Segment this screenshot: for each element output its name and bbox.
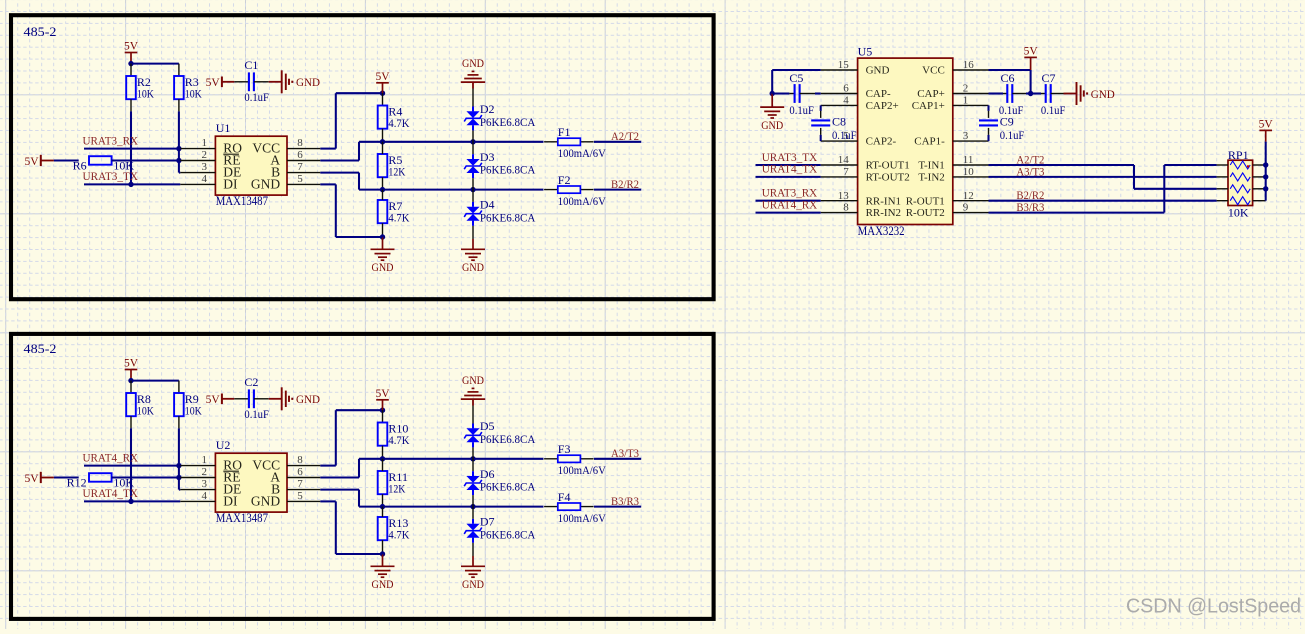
svg-text:7: 7: [297, 478, 303, 490]
svg-text:5V: 5V: [124, 357, 139, 369]
svg-text:P6KE6.8CA: P6KE6.8CA: [480, 480, 536, 494]
svg-text:A3/T3: A3/T3: [611, 446, 639, 460]
svg-text:12: 12: [963, 190, 974, 202]
svg-text:0.1uF: 0.1uF: [1041, 103, 1066, 117]
svg-text:P6KE6.8CA: P6KE6.8CA: [480, 115, 536, 129]
svg-text:6: 6: [843, 83, 849, 95]
svg-text:P6KE6.8CA: P6KE6.8CA: [480, 163, 536, 177]
svg-text:5V: 5V: [206, 394, 221, 406]
svg-text:T-IN2: T-IN2: [918, 172, 944, 184]
svg-text:URAT3_RX: URAT3_RX: [83, 133, 139, 147]
svg-text:CAP1+: CAP1+: [912, 100, 945, 112]
svg-text:URAT4_RX: URAT4_RX: [762, 197, 818, 211]
svg-text:4.7K: 4.7K: [388, 116, 409, 130]
svg-text:GND: GND: [296, 75, 320, 89]
svg-text:GND: GND: [296, 392, 320, 406]
svg-text:GND: GND: [251, 176, 280, 191]
svg-text:GND: GND: [462, 373, 484, 387]
svg-text:GND: GND: [372, 260, 394, 274]
svg-text:4.7K: 4.7K: [388, 527, 409, 541]
svg-text:A3/T3: A3/T3: [1016, 164, 1044, 178]
svg-text:C8: C8: [832, 114, 846, 128]
svg-text:DI: DI: [223, 176, 238, 191]
svg-text:0.1uF: 0.1uF: [789, 103, 814, 117]
svg-text:0.1uF: 0.1uF: [1000, 128, 1025, 142]
svg-text:10K: 10K: [137, 403, 154, 417]
svg-text:5: 5: [297, 490, 303, 502]
svg-text:2: 2: [202, 466, 208, 478]
svg-text:MAX3232: MAX3232: [858, 224, 905, 238]
svg-text:4: 4: [843, 95, 849, 107]
svg-text:DI: DI: [223, 493, 238, 508]
svg-text:13: 13: [838, 190, 850, 202]
svg-text:12K: 12K: [388, 481, 405, 495]
svg-text:14: 14: [838, 154, 850, 166]
svg-text:RR-IN2: RR-IN2: [866, 207, 901, 219]
svg-text:0.1uF: 0.1uF: [832, 128, 857, 142]
svg-text:CAP1-: CAP1-: [914, 136, 945, 148]
svg-text:B3/R3: B3/R3: [611, 494, 639, 508]
svg-text:F3: F3: [558, 442, 571, 456]
svg-text:5V: 5V: [1259, 119, 1274, 131]
svg-text:RP1: RP1: [1228, 148, 1249, 162]
svg-text:0.1uF: 0.1uF: [244, 90, 269, 104]
svg-text:CAP2-: CAP2-: [866, 136, 897, 148]
svg-text:CAP+: CAP+: [917, 88, 945, 100]
svg-text:F1: F1: [558, 125, 571, 139]
svg-text:MAX13487: MAX13487: [216, 194, 268, 208]
svg-text:5: 5: [297, 173, 303, 185]
svg-text:RR-IN1: RR-IN1: [866, 195, 901, 207]
svg-text:A2/T2: A2/T2: [611, 129, 639, 143]
svg-text:GND: GND: [866, 65, 890, 77]
svg-text:1: 1: [963, 95, 969, 107]
svg-text:GND: GND: [761, 118, 783, 132]
svg-text:GND: GND: [251, 493, 280, 508]
svg-text:6: 6: [297, 466, 303, 478]
svg-text:C1: C1: [244, 58, 258, 72]
svg-text:10K: 10K: [185, 403, 202, 417]
svg-text:CAP2+: CAP2+: [866, 100, 899, 112]
svg-text:C5: C5: [789, 71, 803, 85]
svg-text:GND: GND: [462, 260, 484, 274]
svg-text:4: 4: [202, 173, 208, 185]
svg-text:3: 3: [202, 478, 208, 490]
svg-text:CAP-: CAP-: [866, 88, 891, 100]
svg-text:1: 1: [202, 137, 208, 149]
svg-text:GND: GND: [462, 56, 484, 70]
svg-text:0.1uF: 0.1uF: [244, 407, 269, 421]
svg-text:F2: F2: [558, 173, 571, 187]
svg-text:1: 1: [202, 454, 208, 466]
svg-text:RT-OUT1: RT-OUT1: [866, 160, 910, 172]
svg-text:12K: 12K: [388, 164, 405, 178]
svg-text:GND: GND: [462, 577, 484, 591]
svg-text:B2/R2: B2/R2: [611, 177, 639, 191]
svg-text:5V: 5V: [375, 388, 390, 400]
svg-text:C2: C2: [244, 375, 258, 389]
svg-text:MAX13487: MAX13487: [216, 511, 268, 525]
svg-text:T-IN1: T-IN1: [918, 160, 944, 172]
svg-text:100mA/6V: 100mA/6V: [558, 511, 606, 525]
svg-text:15: 15: [838, 59, 850, 71]
svg-text:10K: 10K: [185, 86, 202, 100]
svg-text:F4: F4: [558, 490, 571, 504]
svg-text:CSDN @LostSpeed: CSDN @LostSpeed: [1126, 595, 1301, 618]
svg-text:C7: C7: [1042, 71, 1056, 85]
svg-text:URAT4_TX: URAT4_TX: [83, 486, 139, 500]
svg-text:URAT3_TX: URAT3_TX: [83, 169, 139, 183]
svg-text:8: 8: [843, 202, 849, 214]
svg-text:GND: GND: [372, 577, 394, 591]
svg-text:C9: C9: [1000, 114, 1014, 128]
svg-text:485-2: 485-2: [24, 25, 57, 39]
svg-text:485-2: 485-2: [24, 342, 57, 356]
svg-text:10K: 10K: [1228, 205, 1249, 219]
svg-text:P6KE6.8CA: P6KE6.8CA: [480, 527, 536, 541]
svg-text:VCC: VCC: [922, 65, 945, 77]
svg-text:C6: C6: [1001, 71, 1015, 85]
svg-text:4: 4: [202, 490, 208, 502]
svg-text:10: 10: [963, 166, 975, 178]
svg-text:U1: U1: [216, 121, 231, 135]
svg-text:3: 3: [202, 161, 208, 173]
svg-text:6: 6: [297, 149, 303, 161]
svg-text:URAT4_RX: URAT4_RX: [83, 450, 139, 464]
svg-text:5V: 5V: [25, 156, 40, 168]
svg-text:11: 11: [963, 154, 974, 166]
svg-text:P6KE6.8CA: P6KE6.8CA: [480, 432, 536, 446]
svg-text:GND: GND: [1091, 87, 1115, 101]
svg-text:4.7K: 4.7K: [388, 210, 409, 224]
svg-text:R-OUT2: R-OUT2: [906, 207, 945, 219]
svg-text:URAT4_TX: URAT4_TX: [762, 162, 818, 176]
svg-text:5V: 5V: [25, 473, 40, 485]
svg-text:B3/R3: B3/R3: [1016, 200, 1044, 214]
svg-text:5V: 5V: [1024, 46, 1039, 58]
svg-text:P6KE6.8CA: P6KE6.8CA: [480, 210, 536, 224]
svg-text:7: 7: [297, 161, 303, 173]
svg-text:R-OUT1: R-OUT1: [906, 195, 945, 207]
svg-text:100mA/6V: 100mA/6V: [558, 194, 606, 208]
svg-text:3: 3: [963, 130, 969, 142]
svg-text:100mA/6V: 100mA/6V: [558, 146, 606, 160]
svg-text:2: 2: [202, 149, 208, 161]
svg-text:U2: U2: [216, 438, 231, 452]
svg-text:5V: 5V: [206, 77, 221, 89]
svg-text:U5: U5: [858, 45, 873, 59]
svg-text:5V: 5V: [124, 40, 139, 52]
svg-text:9: 9: [963, 202, 969, 214]
svg-text:16: 16: [963, 59, 975, 71]
svg-text:8: 8: [297, 137, 303, 149]
svg-text:RT-OUT2: RT-OUT2: [866, 172, 910, 184]
svg-text:4.7K: 4.7K: [388, 433, 409, 447]
svg-text:2: 2: [963, 83, 969, 95]
svg-text:100mA/6V: 100mA/6V: [558, 463, 606, 477]
svg-text:5V: 5V: [375, 71, 390, 83]
svg-text:7: 7: [843, 166, 849, 178]
svg-text:10K: 10K: [137, 86, 154, 100]
svg-text:8: 8: [297, 454, 303, 466]
